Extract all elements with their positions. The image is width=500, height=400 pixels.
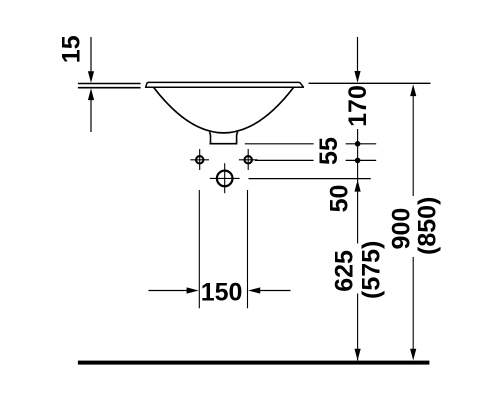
main hole center (large circle with crosshair) <box>210 163 240 193</box>
faucet hole left (small circle with crosshair) <box>190 149 209 170</box>
rim level extension line (right) <box>309 82 431 84</box>
main hole level reference line <box>249 178 371 180</box>
drain outlet <box>209 132 238 144</box>
svg-text:(850): (850) <box>413 197 441 255</box>
dimension 150 right arrow <box>248 287 290 293</box>
extension line left hole (150 dim) <box>198 190 200 308</box>
faucet hole right (small circle with crosshair) <box>239 149 258 170</box>
countertop top surface line <box>78 83 141 85</box>
dimension line 900 (vertical, x=413.2) <box>410 84 416 360</box>
svg-text:(575): (575) <box>357 241 385 299</box>
floor line <box>78 361 430 365</box>
extension line right hole (150 dim) <box>247 190 249 308</box>
svg-text:900: 900 <box>387 208 415 250</box>
svg-text:15: 15 <box>58 35 86 63</box>
basin bowl (circular arc) <box>154 88 294 133</box>
dimension 15 lower arrow <box>88 88 94 132</box>
countertop bottom surface line <box>78 87 141 89</box>
dimension line 625 (vertical, x=357.6) <box>355 129 361 361</box>
svg-text:55: 55 <box>315 137 343 165</box>
svg-text:50: 50 <box>325 185 353 213</box>
basin flange (rim section) <box>146 82 304 87</box>
svg-text:150: 150 <box>201 279 243 307</box>
dimension 150 left arrow <box>148 287 198 293</box>
svg-text:170: 170 <box>344 85 372 127</box>
svg-text:625: 625 <box>331 250 359 292</box>
dimension dot lower <box>355 158 361 164</box>
faucet holes level reference line <box>255 159 376 161</box>
dimension 170 down arrow <box>354 37 360 83</box>
dimension dot upper <box>355 141 361 147</box>
dimension 15 upper arrow <box>88 37 94 83</box>
drain level reference line <box>245 143 376 145</box>
